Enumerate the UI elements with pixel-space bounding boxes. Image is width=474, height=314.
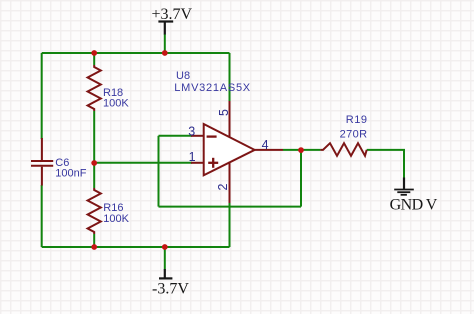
power port -3.7V bar <box>152 269 189 298</box>
resistor R19 <box>320 114 367 156</box>
wire feedback bottom horizontal <box>159 206 302 208</box>
ground symbol GND V <box>390 178 438 214</box>
svg-text:+3.7V: +3.7V <box>152 6 193 23</box>
wire top rail +3.7V <box>42 52 230 54</box>
svg-text:4: 4 <box>262 138 269 152</box>
pin 5 stub <box>229 101 231 138</box>
svg-text:R19: R19 <box>346 114 368 126</box>
junction dot +3.7V stub <box>162 50 168 56</box>
pin 3 stub <box>191 135 204 137</box>
resistor R16 <box>88 163 130 246</box>
wire feedback right vertical from output <box>300 150 302 207</box>
junction dot -3.7V stub <box>162 244 168 250</box>
svg-text:GND V: GND V <box>390 196 438 213</box>
resistor R18 <box>88 55 130 163</box>
svg-text:100K: 100K <box>103 213 129 225</box>
pin 1 stub <box>191 162 204 164</box>
svg-text:U8: U8 <box>176 70 190 82</box>
wire feedback left vertical <box>158 136 160 207</box>
junction dot R16 bottom rail <box>91 244 97 250</box>
capacitor C6 <box>31 138 87 186</box>
wire V- pin2 to bottom rail <box>229 203 231 247</box>
power port +3.7V bar <box>152 6 193 35</box>
wire -3.7V power stub <box>164 247 166 270</box>
pin 4 stub <box>254 149 283 151</box>
junction node A divider midpoint <box>91 160 97 166</box>
svg-text:3: 3 <box>188 125 195 139</box>
svg-text:100nF: 100nF <box>55 168 86 180</box>
svg-text:270R: 270R <box>340 128 368 140</box>
pin 2 stub <box>229 162 231 203</box>
minus sign inverting input <box>207 135 217 137</box>
wire V+ pin5 from top rail <box>229 53 231 101</box>
plus sign non-inverting input <box>208 162 218 164</box>
wire output to R19 <box>283 149 320 151</box>
svg-text:-3.7V: -3.7V <box>152 281 189 298</box>
junction dot R18 top rail <box>91 50 97 56</box>
svg-text:1: 1 <box>189 150 196 164</box>
wire +3.7V power stub <box>164 34 166 53</box>
wire pin 3 horizontal <box>159 135 193 137</box>
svg-text:100K: 100K <box>103 98 129 110</box>
junction dot output node <box>298 147 304 153</box>
svg-text:5: 5 <box>217 109 231 116</box>
svg-text:2: 2 <box>216 183 230 190</box>
wire bottom rail -3.7V <box>42 246 230 248</box>
wire node A horizontal to pin 1 <box>94 162 192 164</box>
wire left vertical branch upper <box>41 53 43 139</box>
wire R19 to GND corner <box>367 150 404 179</box>
wire left vertical branch lower <box>41 185 43 247</box>
op-amp U8 triangle <box>204 124 255 175</box>
svg-text:LMV321AS5X: LMV321AS5X <box>174 82 251 94</box>
